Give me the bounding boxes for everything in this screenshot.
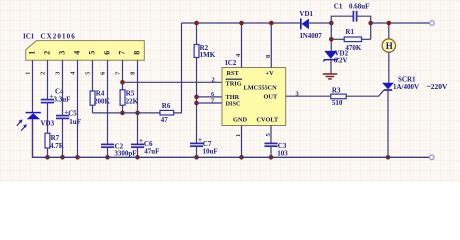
svg-text:H: H	[386, 41, 393, 51]
IC1 pin names 1-8 inside body	[28, 51, 142, 55]
wire IC1 pin8 down to Vcc net	[137, 60, 139, 144]
capacitor C5	[56, 108, 81, 126]
svg-text:LMC555CN: LMC555CN	[244, 85, 278, 92]
svg-text:OUT: OUT	[264, 94, 278, 101]
svg-text:R3: R3	[332, 87, 341, 95]
svg-text:1: 1	[28, 51, 37, 55]
thyristor SCR1	[382, 76, 419, 91]
wire SCR cathode to ground rail	[387, 90, 389, 157]
junction +V-rail	[269, 21, 274, 26]
junction C3-rail	[269, 155, 274, 160]
junction pin4-rail	[75, 155, 80, 160]
wire right node to terminal	[371, 22, 430, 24]
svg-text:0.68uF: 0.68uF	[349, 2, 369, 10]
capacitor C7	[190, 136, 218, 155]
resistor R4	[90, 90, 110, 106]
IC1 pin numbers 1-8 below body	[25, 71, 137, 75]
svg-text:5: 5	[88, 51, 97, 55]
junction pin8-Vcc net	[135, 111, 140, 116]
wire C1 to right node	[357, 16, 371, 39]
wire C6 to ground rail	[137, 147, 139, 157]
wire R1 to right node	[362, 38, 371, 40]
svg-text:R1: R1	[345, 28, 354, 36]
wire IC1 pin3 to C5	[62, 60, 64, 115]
capacitor C4	[41, 87, 71, 103]
svg-text:IC2: IC2	[225, 59, 237, 67]
svg-text:47uF: 47uF	[144, 148, 159, 156]
terminal top right	[430, 21, 435, 26]
svg-text:CX20106: CX20106	[41, 32, 76, 40]
svg-text:10uF: 10uF	[203, 148, 218, 156]
wire IC1 pin2 to C4	[47, 60, 49, 99]
svg-text:TRIG: TRIG	[226, 81, 242, 88]
junction R5-Vcc net	[120, 111, 125, 116]
wire C2 to ground rail	[107, 147, 109, 157]
junction VD1/C1/R1/VD2 node	[329, 21, 334, 26]
ground	[323, 74, 338, 79]
svg-text:+V: +V	[266, 70, 275, 77]
wire IC1 pin1 to VD3	[32, 60, 34, 112]
svg-text:8: 8	[133, 51, 142, 55]
IC1 CX20106 body	[26, 41, 145, 61]
IC2 LMC555CN body	[222, 68, 286, 126]
wire C4 to R7	[47, 103, 49, 134]
svg-text:2: 2	[212, 76, 215, 83]
lamp H	[382, 39, 395, 52]
wire C7 to ground rail	[196, 146, 198, 157]
svg-text:R7: R7	[51, 134, 60, 142]
svg-text:1A/400V: 1A/400V	[393, 83, 419, 91]
wire RST to V+ rail	[241, 23, 243, 68]
photodiode VD3	[17, 113, 41, 131]
svg-text:510: 510	[332, 99, 343, 107]
resistor R7	[45, 133, 65, 150]
junction lamp branch	[387, 21, 392, 26]
capacitor C3	[264, 142, 288, 157]
svg-text:47: 47	[161, 116, 169, 124]
capacitor C6	[131, 137, 159, 156]
junction right node	[368, 21, 373, 26]
svg-text:22K: 22K	[126, 98, 139, 106]
svg-text:CVOLT: CVOLT	[257, 116, 279, 123]
wire VD2 to ground symbol	[330, 60, 332, 74]
svg-text:2: 2	[40, 72, 47, 75]
svg-text:1: 1	[25, 72, 32, 75]
wire node to R1	[331, 38, 344, 40]
wire C3 to ground rail	[270, 146, 272, 157]
svg-text:C5: C5	[68, 109, 77, 117]
junction C2-rail	[105, 155, 110, 160]
junction DISC	[194, 101, 199, 106]
svg-text:IC1: IC1	[23, 32, 35, 40]
resistor R1	[344, 28, 362, 52]
svg-text:2: 2	[43, 51, 52, 55]
wire +V to V+ rail	[270, 23, 272, 68]
capacitor C1	[334, 2, 370, 21]
svg-text:IN4007: IN4007	[300, 32, 322, 40]
ground rail	[33, 119, 430, 157]
svg-text:1uF: 1uF	[69, 118, 81, 126]
svg-text:R4: R4	[96, 90, 105, 98]
junction C6-rail	[135, 155, 140, 160]
wire CVOLT to C3	[270, 126, 272, 144]
wire IC1 pin7 to node A	[122, 60, 124, 90]
junction C7-rail	[194, 155, 199, 160]
junction pin7 / R5 / output wire	[120, 80, 125, 85]
wire IC1 pin5 to R4	[92, 60, 94, 91]
resistor R5	[120, 90, 139, 106]
wire R2 down through TRIG/THR/DISC	[196, 58, 198, 144]
wire C5 to ground rail	[62, 118, 64, 157]
junction THR	[194, 95, 199, 100]
svg-text:6.2V: 6.2V	[334, 56, 348, 64]
svg-text:VD1: VD1	[299, 10, 313, 18]
wire R5 to Vcc net	[122, 105, 124, 113]
wire R3 to SCR gate	[346, 90, 384, 96]
terminal bottom right	[429, 155, 434, 160]
resistor R3	[331, 87, 347, 107]
wire VD3 to ground rail	[32, 119, 34, 157]
svg-text:RST: RST	[227, 70, 240, 77]
wire R4 to Vcc net	[92, 105, 94, 113]
diode VD1	[299, 10, 322, 40]
capacitor C2	[101, 142, 137, 157]
wire IC1 pin6 to C2	[107, 60, 109, 144]
junction RST-rail	[239, 21, 244, 26]
wire THR	[197, 96, 223, 98]
wire R6 to V+ vertical	[174, 23, 182, 113]
wire terminal line down to lamp	[388, 23, 390, 39]
svg-text:GND: GND	[233, 116, 247, 123]
svg-text:7: 7	[118, 51, 127, 55]
wire IC1 pin4 to ground rail	[77, 60, 79, 157]
svg-text:~220V: ~220V	[427, 82, 448, 91]
junction SCR-rail	[386, 155, 391, 160]
svg-text:C1: C1	[334, 2, 343, 10]
svg-text:3300pF: 3300pF	[114, 150, 136, 158]
wire DISC	[197, 102, 223, 104]
wire OUT to R3	[286, 95, 331, 97]
wire node up to C1 branch	[331, 16, 353, 51]
svg-text:DISC: DISC	[226, 101, 241, 108]
V+ top rail	[182, 22, 301, 24]
junction R1 left	[329, 37, 334, 42]
resistor R6	[160, 102, 174, 124]
svg-text:1MK: 1MK	[200, 51, 216, 59]
svg-text:+: +	[198, 136, 202, 144]
zener diode VD2	[323, 49, 348, 64]
svg-text:R5: R5	[126, 90, 135, 98]
svg-text:6: 6	[103, 51, 112, 55]
wire Vcc net horizontal	[93, 112, 161, 114]
IC2 pin name TRIG with overline	[226, 79, 243, 87]
wire VD1 to node	[309, 22, 331, 24]
svg-text:3: 3	[58, 51, 67, 55]
resistor R2	[194, 21, 216, 59]
wire GND to ground rail	[241, 126, 243, 158]
svg-text:103: 103	[277, 149, 288, 157]
junction GND-rail	[239, 155, 244, 160]
junction R7-rail	[45, 155, 50, 160]
junction C5-rail	[60, 155, 65, 160]
wire lamp to SCR anode	[388, 52, 390, 82]
svg-text:R6: R6	[162, 102, 171, 110]
svg-text:4: 4	[73, 51, 82, 55]
wire R7 to ground rail	[47, 148, 49, 157]
wire output net (pin7 to TRIG)	[123, 81, 223, 83]
svg-text:+: +	[139, 137, 143, 145]
